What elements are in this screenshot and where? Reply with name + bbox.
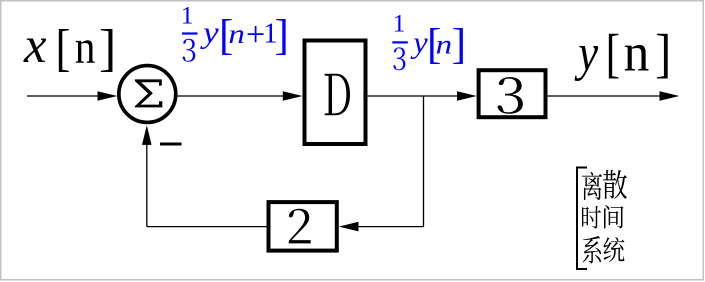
wire: feedback from gain 2 to below summer <box>147 226 267 228</box>
label D <box>325 74 350 116</box>
label char 统 <box>603 237 624 262</box>
sigma symbol in summer <box>135 79 163 107</box>
arrowhead up into summer <box>142 125 152 145</box>
wire: summer to delay block D <box>178 95 288 97</box>
fraction denominator 3 <box>393 47 405 70</box>
blue label 1/3 y[n] <box>392 9 466 71</box>
blue label 1/3 y[n+1] <box>181 0 289 61</box>
wire: feedback vertical drop from node <box>423 96 425 227</box>
svg-text:]: ] <box>99 20 116 77</box>
svg-text:1: 1 <box>181 0 194 29</box>
fraction bar <box>182 32 198 34</box>
svg-text:]: ] <box>452 21 466 68</box>
fraction bar <box>392 41 408 43</box>
wire: feedback horizontal into gain 2 <box>353 226 424 228</box>
arrowhead into D <box>283 91 303 101</box>
label 3 <box>497 77 522 114</box>
label char 间 <box>604 205 624 229</box>
svg-text:y: y <box>410 25 428 59</box>
gain block 3 <box>479 70 546 117</box>
label char 离 <box>582 172 602 200</box>
wire: feedback vertical up into summer <box>146 140 148 227</box>
svg-text:]: ] <box>655 24 671 84</box>
arrowhead output <box>660 91 680 101</box>
label char 系 <box>583 236 602 264</box>
svg-text:]: ] <box>275 12 289 59</box>
fraction denominator 3 <box>183 39 196 62</box>
annotation bracket [ <box>576 167 587 271</box>
summing junction (adder) <box>119 66 176 123</box>
svg-text:1: 1 <box>393 9 406 38</box>
svg-text:y: y <box>200 16 219 50</box>
gain block 2 <box>269 202 337 251</box>
wire: gain 3 to output <box>548 95 666 97</box>
minus sign at summer <box>160 143 182 146</box>
svg-text:[: [ <box>55 20 70 77</box>
arrowhead into gain 3 <box>457 91 477 101</box>
delay block D <box>305 41 366 145</box>
label 2 <box>289 209 311 244</box>
wire: input line x[n] to summer <box>27 95 103 97</box>
svg-text:n: n <box>624 24 650 83</box>
svg-text:[: [ <box>606 23 620 84</box>
label char 时 <box>582 206 601 229</box>
label char 散 <box>603 170 627 199</box>
svg-text:n: n <box>436 29 453 60</box>
svg-text:x: x <box>23 17 47 73</box>
wire: D to gain block 3 <box>368 95 463 97</box>
svg-text:n: n <box>75 20 96 73</box>
svg-text:n: n <box>228 18 245 49</box>
arrowhead into summer <box>98 91 118 101</box>
arrowhead into gain 2 <box>339 222 359 232</box>
